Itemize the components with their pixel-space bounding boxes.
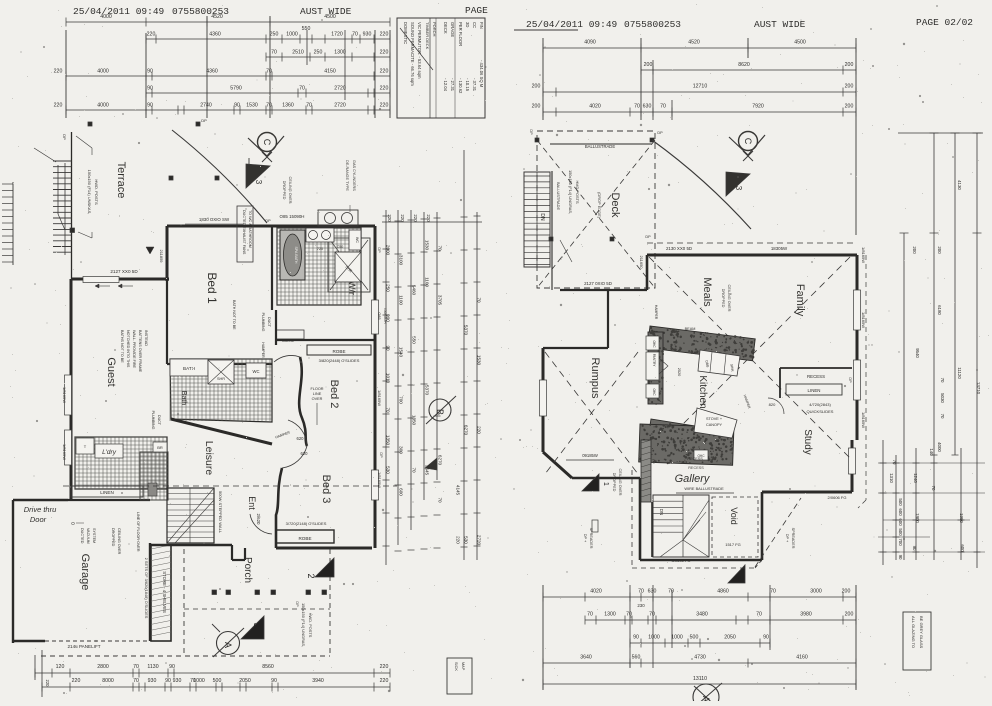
- vanity above wall: [318, 210, 358, 226]
- stairs bottom wall: [151, 544, 232, 547]
- svg-text:620: 620: [297, 436, 305, 441]
- svg-text:DE-RANGE TYPE: DE-RANGE TYPE: [345, 160, 349, 191]
- entry porch wall: [232, 559, 245, 561]
- svg-text:Leisure: Leisure: [203, 441, 215, 476]
- svg-text:C: C: [743, 138, 753, 145]
- svg-text:1240: 1240: [913, 473, 918, 483]
- svg-text:Family: Family: [794, 284, 806, 317]
- svg-text:DECK: DECK: [443, 22, 448, 34]
- svg-text:11120: 11120: [957, 367, 962, 379]
- kitchen white boxes: [698, 350, 740, 376]
- svg-text:70: 70: [940, 378, 945, 383]
- svg-text:8000: 8000: [102, 678, 114, 684]
- svg-text:Drive thru: Drive thru: [24, 505, 57, 514]
- svg-text:200: 200: [937, 246, 942, 254]
- svg-text:5030: 5030: [940, 393, 945, 403]
- svg-text:9540: 9540: [915, 348, 920, 358]
- svg-text:70: 70: [386, 407, 391, 413]
- svg-text:211650: 211650: [639, 255, 644, 269]
- ensuite fixtures: [306, 228, 334, 242]
- svg-text:O85 15090H: O85 15090H: [280, 214, 305, 219]
- svg-text:3: 3: [252, 622, 262, 627]
- svg-text:Kitchen: Kitchen: [697, 375, 708, 408]
- top dim block long vertical guides: [65, 30, 67, 118]
- svg-text:90: 90: [234, 103, 240, 109]
- right dim row 4020/7920: [543, 111, 856, 113]
- svg-text:530: 530: [386, 466, 391, 474]
- svg-text:2: 2: [306, 573, 316, 578]
- svg-text:Deck: Deck: [609, 192, 621, 218]
- svg-text:560: 560: [632, 655, 641, 661]
- svg-text:DROPPED: DROPPED: [721, 289, 725, 308]
- svg-text:600: 600: [898, 508, 903, 516]
- svg-text:Garage: Garage: [79, 554, 91, 591]
- svg-text:200: 200: [532, 84, 541, 90]
- bed3 robe: [276, 530, 334, 543]
- svg-text:Meals: Meals: [701, 277, 713, 307]
- svg-text:4730: 4730: [694, 655, 706, 661]
- svg-text:1/8165W: 1/8165W: [62, 387, 67, 403]
- svg-text:4860: 4860: [717, 589, 729, 595]
- svg-text:90: 90: [147, 86, 153, 92]
- svg-text:90: 90: [147, 69, 153, 75]
- svg-text:GRAGE: GRAGE: [450, 22, 455, 37]
- svg-text:C50: C50: [337, 245, 344, 249]
- svg-text:CC: CC: [472, 22, 477, 28]
- svg-text:4360: 4360: [206, 69, 218, 75]
- svg-text:90: 90: [165, 678, 171, 684]
- svg-text:4500: 4500: [794, 40, 806, 46]
- svg-text:CEILING OVER: CEILING OVER: [117, 528, 121, 555]
- svg-text:220: 220: [380, 664, 389, 670]
- svg-text:1100: 1100: [399, 295, 404, 305]
- svg-text:70: 70: [892, 460, 897, 465]
- svg-text:3: 3: [733, 576, 742, 581]
- svg-text:2/0606 FG: 2/0606 FG: [828, 495, 847, 500]
- svg-text:3480: 3480: [696, 612, 708, 618]
- exterior wall top (Bed1/ensuite): [167, 225, 375, 228]
- svg-text:220: 220: [477, 426, 482, 434]
- linen box: [71, 486, 143, 497]
- deck roof arc: [652, 140, 751, 229]
- section marker C right: [739, 132, 758, 151]
- svg-text:WC: WC: [253, 369, 260, 374]
- svg-text:4150: 4150: [324, 69, 336, 75]
- right bottom row 1: [543, 596, 856, 598]
- svg-text:2800: 2800: [97, 664, 109, 670]
- svg-text:700: 700: [399, 396, 404, 404]
- rumpus left wall: [542, 348, 545, 452]
- svg-text:220: 220: [456, 536, 461, 544]
- svg-text:4/720(2843): 4/720(2843): [809, 402, 831, 407]
- svg-text:0755800253: 0755800253: [624, 19, 681, 30]
- svg-text:1360: 1360: [282, 103, 294, 109]
- svg-text:220: 220: [380, 86, 389, 92]
- svg-text:250: 250: [386, 284, 391, 292]
- svg-text:4160: 4160: [796, 655, 808, 661]
- svg-text:RECESS: RECESS: [688, 466, 704, 470]
- exhaust note box: [237, 206, 253, 262]
- svg-text:4145: 4145: [456, 485, 461, 496]
- svg-text:4520: 4520: [211, 14, 223, 20]
- svg-text:150x150 (F14) UNGRAS,: 150x150 (F14) UNGRAS,: [568, 170, 573, 214]
- dim row 2510/1300: [266, 56, 390, 58]
- svg-text:500: 500: [898, 498, 903, 506]
- svg-text:820: 820: [769, 402, 776, 407]
- right dim verticals: [385, 210, 387, 565]
- svg-text:BATH: BATH: [183, 366, 195, 371]
- svg-text:2/620: 2/620: [256, 514, 261, 526]
- ensuite shower: [335, 252, 361, 282]
- svg-text:4020: 4020: [589, 104, 601, 110]
- svg-text:PANTRY: PANTRY: [652, 354, 656, 368]
- bottom left small ticks: [41, 650, 43, 697]
- porch dashed outline: [183, 549, 185, 656]
- svg-text:Study: Study: [802, 429, 813, 455]
- svg-text:PER FLOOR: PER FLOOR: [458, 22, 463, 46]
- svg-text:2146 PANELIFT: 2146 PANELIFT: [67, 644, 100, 649]
- svg-text:1530: 1530: [477, 355, 482, 366]
- svg-text:70: 70: [940, 414, 945, 419]
- svg-text:DP: DP: [645, 235, 651, 239]
- svg-text:70: 70: [306, 103, 312, 109]
- svg-text:220: 220: [387, 214, 392, 222]
- svg-text:RECESS: RECESS: [807, 374, 825, 379]
- svg-text:70: 70: [770, 589, 776, 595]
- svg-text:5370: 5370: [425, 385, 430, 396]
- svg-text:930: 930: [173, 678, 182, 684]
- svg-text:500: 500: [690, 635, 699, 641]
- dim row 4000/4360/4150: [66, 75, 390, 77]
- dim row 5790/2720: [146, 92, 390, 94]
- svg-text:ROBE: ROBE: [298, 536, 311, 541]
- deck notch wall v: [607, 290, 609, 348]
- svg-text:1000: 1000: [193, 678, 205, 684]
- svg-text:200: 200: [842, 589, 851, 595]
- svg-text:720: 720: [317, 247, 323, 251]
- svg-text:4500: 4500: [324, 14, 336, 20]
- svg-text:FIN: FIN: [479, 22, 484, 29]
- svg-text:2720: 2720: [334, 103, 346, 109]
- svg-text:13710: 13710: [976, 382, 981, 395]
- svg-text:70: 70: [266, 69, 272, 75]
- svg-text:4360: 4360: [209, 32, 221, 38]
- garage right lower wall: [149, 543, 151, 641]
- svg-text:630: 630: [643, 104, 652, 110]
- svg-text:DN: DN: [539, 213, 545, 221]
- svg-text:4000: 4000: [100, 14, 112, 20]
- svg-text:A: A: [223, 642, 233, 648]
- detail marker A: [217, 632, 240, 655]
- svg-text:220: 220: [72, 678, 81, 684]
- study bottom wall: [762, 491, 852, 494]
- svg-text:70: 70: [638, 589, 644, 595]
- deck house wall: [560, 289, 647, 291]
- svg-text:200: 200: [532, 104, 541, 110]
- svg-text:70: 70: [660, 104, 666, 110]
- svg-text:150x150 (F14) UNSKAS,: 150x150 (F14) UNSKAS,: [87, 170, 92, 215]
- left edge ruler: [12, 182, 14, 265]
- svg-text:Terrace: Terrace: [115, 162, 127, 199]
- svg-text:620: 620: [301, 451, 309, 456]
- upper stairs: [653, 495, 709, 557]
- svg-text:4000: 4000: [97, 103, 109, 109]
- svg-text:550: 550: [412, 336, 417, 344]
- svg-text:6270: 6270: [438, 455, 443, 466]
- bottom right box left page: [447, 658, 472, 694]
- svg-text:7920: 7920: [752, 104, 764, 110]
- svg-text:140: 140: [929, 448, 934, 456]
- svg-text:220: 220: [380, 69, 389, 75]
- garage door dashed: [45, 640, 148, 642]
- svg-text:STOVE +: STOVE +: [706, 417, 723, 421]
- right bottom row 4: [543, 662, 856, 664]
- deck stairs: [524, 172, 550, 267]
- right page side dims: [903, 233, 905, 560]
- bed3 left wall: [276, 468, 282, 548]
- window breaks right wall: [371, 375, 373, 425]
- svg-text:OHC: OHC: [652, 340, 656, 348]
- svg-text:1/8165W: 1/8165W: [861, 312, 866, 328]
- svg-text:4520: 4520: [688, 40, 700, 46]
- svg-text:PAGE: PAGE: [465, 5, 488, 16]
- svg-text:300: 300: [399, 446, 404, 454]
- wall Bed1 right (corridor): [271, 226, 273, 310]
- svg-text:- 434.06 SQ M: - 434.06 SQ M: [479, 60, 484, 88]
- svg-text:120: 120: [56, 664, 65, 670]
- svg-text:211859: 211859: [159, 249, 164, 263]
- svg-text:SICK: SICK: [454, 662, 458, 671]
- svg-text:VIC PERMUTOR. - 53.64 sqm: VIC PERMUTOR. - 53.64 sqm: [417, 22, 422, 79]
- svg-text:70: 70: [133, 678, 139, 684]
- svg-text:DUCTED EXHAUST FANS: DUCTED EXHAUST FANS: [242, 210, 246, 255]
- svg-text:4090: 4090: [584, 40, 596, 46]
- svg-text:Void: Void: [729, 507, 739, 525]
- right dim row 4090/4520/4500: [543, 47, 856, 49]
- svg-text:SPA BATH: SPA BATH: [294, 246, 298, 263]
- dim row 4360/1720: [146, 38, 390, 40]
- wall Bed1 left: [166, 226, 169, 281]
- svg-text:AUST WIDE: AUST WIDE: [754, 19, 806, 30]
- guest top wall: [71, 278, 169, 281]
- svg-text:3705: 3705: [438, 295, 443, 306]
- svg-text:1517 FG: 1517 FG: [725, 542, 741, 547]
- ensuite wc: [349, 230, 361, 250]
- guest bottom wall: [68, 499, 150, 501]
- svg-text:8620: 8620: [738, 62, 750, 68]
- svg-text:(DROP EDGE): (DROP EDGE): [597, 192, 602, 219]
- svg-text:BR: BR: [157, 445, 163, 450]
- svg-text:250: 250: [270, 32, 279, 38]
- svg-text:220: 220: [380, 103, 389, 109]
- right top dim verticals: [542, 38, 544, 120]
- svg-text:2130 XX0 5D: 2130 XX0 5D: [666, 246, 692, 251]
- bed2 curved wall: [299, 357, 307, 446]
- wall Bed1 left lower: [166, 281, 168, 364]
- svg-text:90: 90: [147, 103, 153, 109]
- rumpus bottom wall: [572, 477, 640, 480]
- svg-text:GAS CYLINDERS: GAS CYLINDERS: [352, 160, 356, 191]
- svg-text:630: 630: [648, 589, 657, 595]
- svg-text:530: 530: [464, 536, 469, 544]
- svg-text:70: 70: [438, 497, 443, 503]
- svg-text:DP +: DP +: [583, 534, 587, 543]
- svg-text:VACUUM: VACUUM: [86, 528, 90, 544]
- svg-text:70: 70: [299, 86, 305, 92]
- svg-text:2050: 2050: [239, 678, 251, 684]
- svg-text:2050: 2050: [724, 635, 736, 641]
- rumpus inner wall: [639, 478, 642, 560]
- svg-text:1000: 1000: [286, 32, 298, 38]
- svg-text:2520: 2520: [677, 368, 681, 376]
- study left step: [761, 492, 764, 560]
- guest window gap: [65, 375, 72, 415]
- svg-text:L'dry: L'dry: [102, 449, 117, 456]
- svg-text:Door: Door: [30, 515, 47, 524]
- garage top wall: [13, 499, 68, 501]
- svg-text:RECESS: RECESS: [687, 457, 703, 461]
- guest left wall: [70, 279, 73, 500]
- svg-text:HWD. POSTS: HWD. POSTS: [94, 179, 99, 205]
- svg-text:1300: 1300: [604, 612, 616, 618]
- svg-text:600: 600: [960, 544, 965, 552]
- svg-text:QUICKSLIDES: QUICKSLIDES: [807, 409, 834, 414]
- svg-text:NOTCHED INTO THIS: NOTCHED INTO THIS: [126, 330, 130, 368]
- svg-text:90: 90: [912, 546, 917, 551]
- svg-text:70: 70: [587, 612, 593, 618]
- svg-text:220: 220: [426, 214, 431, 222]
- svg-text:1350: 1350: [412, 415, 417, 426]
- svg-text:ROBE: ROBE: [332, 349, 345, 354]
- svg-text:PLUMBING: PLUMBING: [261, 313, 265, 332]
- svg-text:A: A: [701, 696, 711, 701]
- svg-text:DP: DP: [377, 247, 381, 253]
- svg-text:BALLUSTRADE: BALLUSTRADE: [556, 182, 561, 211]
- svg-text:SHR: SHR: [217, 377, 225, 381]
- study dashed outline: [755, 560, 762, 568]
- svg-text:70: 70: [412, 467, 417, 473]
- marker tri 3 gallery: [728, 565, 745, 583]
- svg-text:DP: DP: [657, 131, 663, 135]
- upper right wall lower: [851, 440, 854, 492]
- svg-text:500: 500: [213, 678, 222, 684]
- svg-text:WALL. PROVIDE FIRE: WALL. PROVIDE FIRE: [132, 330, 136, 369]
- svg-text:INSTEAD: INSTEAD: [144, 330, 148, 346]
- svg-text:2127 XX0 5D: 2127 XX0 5D: [110, 269, 138, 274]
- svg-text:HMD POSTS: HMD POSTS: [575, 180, 580, 204]
- svg-text:200: 200: [845, 62, 854, 68]
- svg-text:3000: 3000: [810, 589, 822, 595]
- svg-text:- 37.31: - 37.31: [472, 78, 477, 92]
- svg-text:3/820(2448) O'SLIDES: 3/820(2448) O'SLIDES: [319, 358, 360, 363]
- svg-text:90: 90: [898, 555, 903, 560]
- svg-text:DROPPED: DROPPED: [282, 181, 286, 200]
- right dim row 8620: [641, 69, 856, 71]
- right dim ticks: [383, 215, 390, 217]
- svg-text:3645: 3645: [425, 465, 430, 476]
- svg-text:1950: 1950: [959, 513, 964, 523]
- svg-text:3100: 3100: [399, 255, 404, 266]
- svg-text:CEILING OVER: CEILING OVER: [618, 468, 622, 495]
- svg-text:5370: 5370: [464, 325, 469, 336]
- ensuite tiled floor: [277, 228, 361, 305]
- svg-text:230: 230: [637, 603, 645, 608]
- right bottom row 3: [630, 642, 770, 644]
- svg-text:18305W: 18305W: [771, 246, 788, 251]
- svg-text:220: 220: [45, 680, 50, 688]
- ground stairs: [167, 488, 214, 543]
- dim row 4000/2740/1530: [66, 109, 390, 111]
- right bottom row 5: [543, 683, 856, 685]
- svg-text:1/8165W: 1/8165W: [62, 444, 67, 460]
- svg-text:8560: 8560: [262, 664, 274, 670]
- svg-text:70: 70: [931, 486, 936, 491]
- svg-text:1720: 1720: [331, 32, 343, 38]
- svg-text:70: 70: [649, 612, 655, 618]
- svg-text:3980: 3980: [800, 612, 812, 618]
- wall Bed1/bath bottom: [167, 363, 272, 365]
- svg-text:70: 70: [477, 297, 482, 303]
- right bottom verticals: [542, 585, 544, 690]
- bottom dim row 2 left: [42, 686, 390, 688]
- kitchen bench gallery: [638, 423, 734, 466]
- svg-text:DP: DP: [295, 601, 299, 607]
- kitchen bench left: [647, 331, 664, 405]
- svg-text:STORE - 4 SHELVES: STORE - 4 SHELVES: [162, 571, 167, 613]
- svg-text:12710: 12710: [693, 84, 708, 90]
- svg-text:BATH NOT TO BE: BATH NOT TO BE: [232, 300, 236, 330]
- svg-text:2740: 2740: [200, 103, 212, 109]
- svg-text:PLUMBING: PLUMBING: [151, 411, 155, 430]
- svg-text:90: 90: [763, 635, 769, 641]
- svg-text:2127 0XIO 5D: 2127 0XIO 5D: [584, 281, 612, 286]
- svg-text:90: 90: [386, 345, 391, 351]
- wall above robe: [275, 310, 277, 345]
- svg-text:Bed 2: Bed 2: [328, 380, 340, 409]
- svg-text:220: 220: [54, 103, 63, 109]
- svg-text:WC: WC: [355, 237, 359, 243]
- bed3 bottom wall: [276, 547, 372, 550]
- svg-text:500W STEPPED WALL: 500W STEPPED WALL: [218, 491, 223, 534]
- svg-text:DP: DP: [62, 134, 67, 140]
- svg-text:4000: 4000: [97, 69, 109, 75]
- svg-text:1830 OXIO SW: 1830 OXIO SW: [199, 217, 230, 222]
- svg-text:220: 220: [380, 50, 389, 56]
- svg-text:250: 250: [314, 50, 323, 56]
- svg-text:3/0505 FG: 3/0505 FG: [672, 558, 691, 563]
- svg-text:600: 600: [898, 518, 903, 526]
- svg-text:70: 70: [266, 103, 272, 109]
- porch posts: [212, 590, 217, 595]
- svg-text:DUCT: DUCT: [157, 415, 161, 426]
- svg-text:930: 930: [363, 32, 372, 38]
- upper stair dark band: [641, 440, 651, 502]
- svg-text:1300: 1300: [334, 50, 346, 56]
- svg-text:1130: 1130: [147, 664, 158, 670]
- svg-text:DROPPED: DROPPED: [612, 473, 616, 492]
- svg-text:BATTENS OVER FRAME: BATTENS OVER FRAME: [138, 330, 142, 373]
- svg-text:SPREADER: SPREADER: [791, 528, 795, 549]
- robe top (Wr): [307, 345, 371, 355]
- gallery bottom wall: [640, 559, 762, 562]
- svg-text:90: 90: [633, 635, 639, 641]
- wr diag: [330, 240, 368, 290]
- section arrow 3 (left): [246, 164, 270, 188]
- detail marker B: [429, 399, 451, 421]
- detail marker A bottom: [693, 684, 719, 706]
- svg-text:MAP: MAP: [461, 662, 465, 671]
- svg-text:5460: 5460: [412, 285, 417, 296]
